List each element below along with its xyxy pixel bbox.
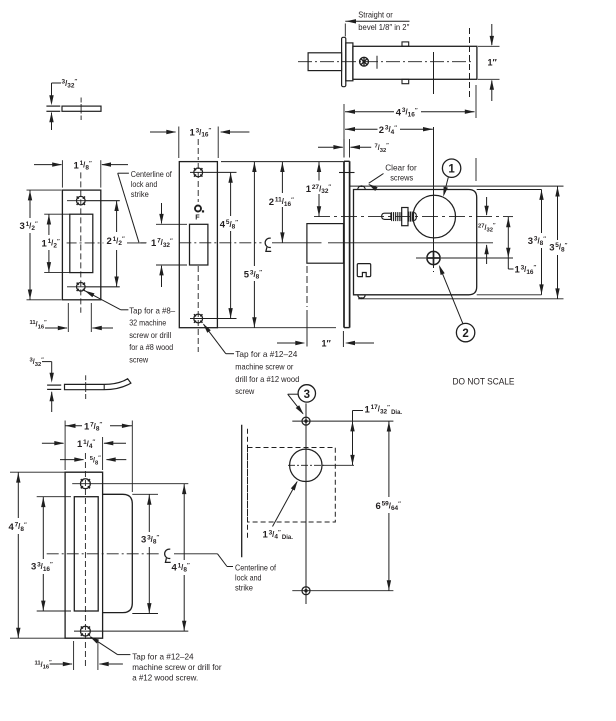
svg-text:1 3/16″: 1 3/16″ (190, 127, 212, 138)
svg-text:Straight or: Straight or (358, 10, 393, 20)
svg-text:machine screw or: machine screw or (235, 362, 293, 372)
svg-text:lock and: lock and (131, 179, 158, 189)
svg-text:32 machine: 32 machine (129, 318, 166, 328)
svg-text:drill for a #12 wood: drill for a #12 wood (235, 374, 299, 384)
svg-text:machine screw or drill for: machine screw or drill for (132, 662, 222, 672)
svg-text:1″: 1″ (488, 57, 498, 67)
svg-text:Centerline of: Centerline of (235, 563, 277, 573)
svg-text:DO NOT SCALE: DO NOT SCALE (453, 376, 515, 386)
svg-text:3: 3 (304, 389, 310, 401)
svg-text:Tap for a #8–: Tap for a #8– (129, 305, 175, 315)
svg-text:Tap for a #12–24: Tap for a #12–24 (235, 349, 297, 359)
svg-text:screw: screw (129, 355, 149, 365)
svg-text:1″: 1″ (322, 339, 332, 349)
svg-text:1 27/32″: 1 27/32″ (306, 184, 332, 195)
svg-text:1: 1 (448, 164, 455, 176)
svg-text:1 7/32″: 1 7/32″ (151, 238, 173, 249)
svg-text:bevel 1/8″ in 2″: bevel 1/8″ in 2″ (358, 22, 409, 32)
svg-text:4 3/16″: 4 3/16″ (396, 107, 418, 118)
svg-text:6 59/64″: 6 59/64″ (376, 501, 402, 512)
svg-text:1 3/16″: 1 3/16″ (515, 265, 537, 276)
svg-text:Clear for: Clear for (385, 162, 417, 172)
svg-text:screw: screw (235, 386, 255, 396)
svg-text:3 3/16″: 3 3/16″ (31, 562, 53, 573)
svg-text:lock and: lock and (235, 573, 262, 583)
svg-text:for a #8 wood: for a #8 wood (129, 342, 173, 352)
svg-text:screws: screws (390, 173, 413, 183)
svg-text:strike: strike (235, 583, 253, 593)
svg-text:F: F (195, 212, 200, 221)
svg-text:Tap for a #12–24: Tap for a #12–24 (132, 652, 194, 662)
svg-text:a #12 wood screw.: a #12 wood screw. (132, 673, 198, 683)
svg-text:strike: strike (131, 189, 149, 199)
svg-text:screw or drill: screw or drill (129, 330, 171, 340)
svg-text:Centerline of: Centerline of (131, 169, 173, 179)
svg-text:2: 2 (462, 328, 468, 340)
